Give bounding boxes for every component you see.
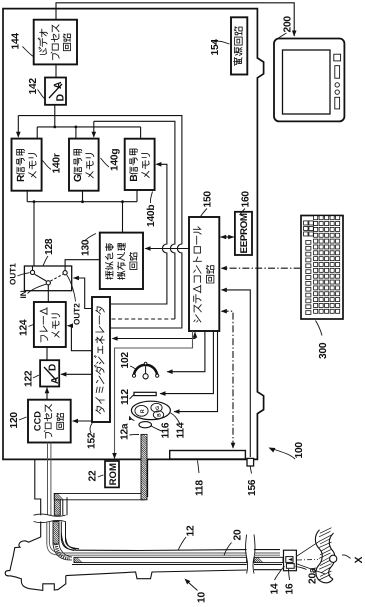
svg-text:D: D bbox=[55, 94, 67, 102]
svg-text:102: 102 bbox=[120, 352, 131, 369]
svg-text:140g: 140g bbox=[110, 149, 121, 171]
svg-text:160: 160 bbox=[241, 191, 252, 208]
svg-text:G: G bbox=[155, 406, 161, 410]
svg-text:16: 16 bbox=[285, 583, 296, 594]
svg-text:200: 200 bbox=[283, 16, 294, 33]
svg-text:G: G bbox=[73, 174, 84, 182]
svg-text:150: 150 bbox=[203, 191, 214, 208]
svg-text:ROM: ROM bbox=[108, 463, 119, 485]
svg-text:112: 112 bbox=[120, 389, 131, 405]
svg-text:152: 152 bbox=[87, 432, 98, 449]
svg-text:12: 12 bbox=[186, 525, 197, 536]
svg-text:OUT2: OUT2 bbox=[73, 303, 82, 325]
svg-text:118: 118 bbox=[195, 480, 206, 496]
svg-text:R: R bbox=[140, 409, 146, 413]
svg-text:12a: 12a bbox=[120, 423, 131, 440]
svg-text:144: 144 bbox=[11, 33, 22, 50]
svg-text:10: 10 bbox=[197, 592, 208, 603]
svg-text:120: 120 bbox=[9, 412, 20, 429]
svg-text:X: X bbox=[353, 556, 365, 563]
svg-text:156: 156 bbox=[247, 479, 258, 496]
svg-text:130: 130 bbox=[81, 239, 92, 256]
svg-text:B: B bbox=[129, 174, 140, 182]
svg-text:140r: 140r bbox=[52, 153, 63, 173]
svg-text:B: B bbox=[157, 413, 163, 417]
svg-text:128: 128 bbox=[44, 238, 55, 255]
svg-text:22: 22 bbox=[88, 470, 99, 481]
svg-text:IN: IN bbox=[19, 290, 28, 298]
svg-text:EEPROM: EEPROM bbox=[239, 213, 250, 253]
svg-text:CCD: CCD bbox=[33, 411, 43, 431]
svg-text:114: 114 bbox=[176, 422, 187, 438]
svg-text:100: 100 bbox=[294, 442, 305, 459]
svg-text:OUT1: OUT1 bbox=[9, 263, 18, 285]
svg-text:124: 124 bbox=[19, 319, 30, 336]
svg-text:20a: 20a bbox=[308, 567, 319, 584]
svg-text:20: 20 bbox=[233, 529, 244, 540]
svg-text:142: 142 bbox=[28, 78, 39, 95]
svg-text:140b: 140b bbox=[146, 205, 157, 227]
svg-text:300: 300 bbox=[318, 342, 329, 359]
svg-text:D: D bbox=[48, 364, 59, 371]
svg-text:A: A bbox=[50, 377, 61, 384]
svg-text:116: 116 bbox=[161, 422, 172, 438]
svg-text:122: 122 bbox=[24, 370, 35, 387]
svg-text:R: R bbox=[16, 174, 27, 182]
svg-text:14: 14 bbox=[270, 583, 281, 594]
